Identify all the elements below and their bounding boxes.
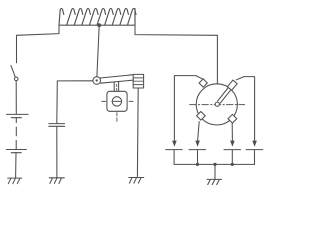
wire: condenser to ground bbox=[56, 126, 58, 177]
junction dot plug 3 bbox=[231, 163, 234, 166]
wire: breaker pivot to condenser (node) bbox=[57, 80, 93, 82]
fixed contact block (with insulator laminations) bbox=[133, 74, 143, 88]
HT lead plug 4 (from upper-right terminal) bbox=[236, 77, 254, 141]
rotor arm bbox=[218, 88, 231, 104]
spark plug 4 electrode bbox=[246, 150, 263, 165]
earth bus joining plugs bbox=[174, 163, 254, 165]
ground (fixed contact) bbox=[129, 178, 144, 184]
ground (battery) bbox=[8, 178, 22, 184]
cam follower pushrod bbox=[114, 82, 118, 92]
distributor terminal lower-left bbox=[197, 111, 206, 120]
distributor body circle bbox=[196, 84, 237, 125]
HT lead: coil right terminal to distributor centre bbox=[135, 25, 217, 102]
spark plug 1 electrode bbox=[166, 150, 183, 165]
distributor centre brush circle bbox=[215, 102, 219, 106]
wire: condenser top lead bbox=[56, 81, 59, 124]
arrowhead plug 2 bbox=[195, 141, 200, 147]
arrowhead plug 4 bbox=[252, 141, 257, 147]
battery B1 inter-cell stub bbox=[15, 118, 17, 123]
cam shaft circle bbox=[112, 97, 121, 106]
cam centreline vertical bbox=[116, 85, 118, 122]
wire: bus to ground bbox=[214, 164, 216, 179]
HT lead plug 2 (from lower-left terminal) bbox=[198, 122, 200, 141]
arrowhead plug 3 bbox=[230, 141, 235, 147]
wire: fixed contact to ground bbox=[136, 88, 139, 177]
wire: switch to battery bbox=[15, 81, 17, 114]
wire: battery to ground bbox=[15, 153, 17, 178]
switch S1 contact circle bbox=[14, 77, 18, 81]
condenser C1 plate 1 bbox=[49, 123, 65, 125]
distributor terminal upper-left bbox=[199, 79, 207, 87]
battery B1 omitted-cells dash bbox=[15, 127, 17, 136]
ground (spark plugs) bbox=[207, 179, 222, 184]
junction dot on coil centre tap bbox=[97, 23, 101, 27]
arrowhead plug 1 bbox=[172, 141, 177, 147]
distributor centreline (dash-dot) bbox=[190, 104, 245, 106]
battery B1 cell 2 long plate bbox=[6, 149, 26, 151]
junction dot plug 2 bbox=[196, 163, 199, 166]
distributor terminal upper-right bbox=[227, 80, 237, 90]
battery B1 cell 1 short plate bbox=[11, 117, 21, 119]
spark plug 2 electrode bbox=[189, 150, 206, 165]
ignition coil L1 (primary winding) bbox=[59, 8, 136, 25]
junction dot earth stem bbox=[213, 163, 216, 166]
battery B1 cell 1 long plate bbox=[7, 113, 29, 115]
condenser C1 plate 2 bbox=[49, 125, 65, 127]
HT lead plug 1 (from upper-left terminal) bbox=[174, 76, 203, 141]
switch S1 (blade) bbox=[11, 66, 15, 78]
cam centreline horizontal bbox=[102, 100, 133, 102]
spark plug 3 electrode bbox=[224, 150, 241, 165]
HT lead plug 3 (from lower-right terminal) bbox=[231, 124, 233, 141]
wire: coil centre tap to breaker pivot bbox=[97, 25, 99, 76]
breaker lever arm bbox=[100, 75, 133, 84]
ground (condenser) bbox=[49, 178, 64, 184]
cam block bbox=[107, 91, 127, 111]
wire: coil left terminal to switch bbox=[17, 25, 60, 63]
battery B1 inter-cell stub 2 bbox=[15, 140, 17, 149]
distributor terminal lower-right bbox=[228, 114, 237, 123]
battery B1 cell 2 short plate bbox=[11, 152, 21, 154]
contact breaker pivot (moving contact) bbox=[93, 77, 101, 85]
